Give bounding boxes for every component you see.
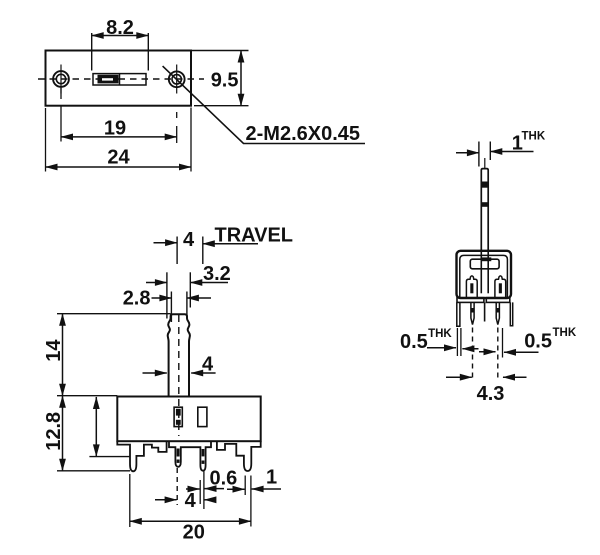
side view right leg <box>510 302 512 325</box>
svg-text:9.5: 9.5 <box>211 70 239 92</box>
svg-text:0.5: 0.5 <box>400 331 428 353</box>
pin 3 inner marks <box>202 449 205 464</box>
side view body outline <box>457 251 512 298</box>
front view lever outline <box>168 314 190 396</box>
leader 2-M2.6X0.45 <box>163 66 365 143</box>
svg-text:14: 14 <box>43 339 65 362</box>
dimension 4.3 <box>446 376 527 378</box>
front view body outline <box>117 397 260 442</box>
svg-text:2-M2.6X0.45: 2-M2.6X0.45 <box>246 123 361 145</box>
svg-text:20: 20 <box>183 522 205 544</box>
svg-text:4: 4 <box>185 490 197 512</box>
svg-text:3.2: 3.2 <box>203 263 231 285</box>
front view contact slot right <box>198 407 207 426</box>
svg-text:4: 4 <box>183 229 195 251</box>
mounting hole left <box>53 65 69 94</box>
top view plate outline <box>46 51 192 106</box>
side view lever shaft inside body <box>481 251 488 293</box>
svg-text:4.3: 4.3 <box>477 383 505 405</box>
svg-text:THK: THK <box>522 131 546 143</box>
dimension 4 pin spacing <box>155 499 214 501</box>
dimension 14 <box>57 314 171 396</box>
dimension 8.2 <box>92 33 149 71</box>
svg-text:TRAVEL: TRAVEL <box>215 225 294 247</box>
side view contact post left <box>466 276 477 298</box>
top view horizontal centerline <box>38 78 204 80</box>
dimension 20 <box>130 520 251 522</box>
dimension 3.2 <box>146 272 228 318</box>
svg-text:THK: THK <box>428 328 452 340</box>
front view center plate with pins 2 and 3 <box>169 441 211 471</box>
svg-text:19: 19 <box>104 118 126 140</box>
front view left foot and pin 1 <box>117 441 166 471</box>
svg-text:2.8: 2.8 <box>123 288 151 310</box>
side view top center dark mark <box>481 257 492 261</box>
svg-text:8.2: 8.2 <box>106 17 134 39</box>
svg-text:0.6: 0.6 <box>210 468 238 490</box>
dimension 2.8 <box>152 292 212 323</box>
front view right foot and pin 4 <box>217 441 261 471</box>
side view pin A <box>471 302 474 324</box>
bottom extension lines <box>130 468 251 527</box>
front view contact slot left <box>174 407 182 426</box>
svg-text:THK: THK <box>553 327 577 339</box>
dimension 4 travel <box>154 237 259 265</box>
dimension 12.8 <box>57 396 130 471</box>
pin 2 inner marks <box>177 449 180 463</box>
dimension 0.6 <box>186 488 224 490</box>
side view contact post right <box>495 276 506 298</box>
svg-text:0.5: 0.5 <box>524 331 552 353</box>
svg-text:1: 1 <box>266 467 277 489</box>
dimension 1 THK <box>456 142 534 167</box>
slide knob (filled) <box>98 75 119 84</box>
dimension 19 <box>61 88 177 143</box>
side view body inner wall <box>460 255 508 297</box>
side view base strips <box>457 298 510 303</box>
mounting hole right <box>169 65 185 94</box>
dimension 9.5 <box>191 51 249 106</box>
side view left leg <box>457 302 460 326</box>
side view inner window <box>470 259 499 269</box>
side view center stub <box>484 303 486 322</box>
dimension 4 lever width <box>143 372 216 374</box>
front view lever centerline <box>178 315 180 436</box>
dimension 1 pin <box>227 488 281 490</box>
side view extension lines <box>457 328 502 382</box>
side view pin B <box>496 302 499 324</box>
dimension 0.5 THK right <box>479 351 539 354</box>
svg-text:24: 24 <box>107 147 130 169</box>
svg-text:4: 4 <box>202 354 214 376</box>
side view lever <box>481 158 488 251</box>
dimension body height unlabeled <box>89 397 130 457</box>
dimension 0.5 THK left <box>427 348 479 349</box>
svg-text:12.8: 12.8 <box>43 412 65 451</box>
dimension 24 <box>46 108 192 172</box>
slide slot outline <box>93 74 146 85</box>
